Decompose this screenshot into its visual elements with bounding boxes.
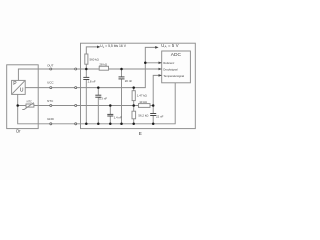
svg-text:56,2 kΩ: 56,2 kΩ <box>138 113 149 117</box>
svg-text:E: E <box>139 131 142 136</box>
svg-text:Drucksignal: Drucksignal <box>163 67 177 71</box>
svg-text:GND: GND <box>47 117 55 121</box>
svg-text:28 kΩ: 28 kΩ <box>99 63 107 67</box>
svg-text:UCC: UCC <box>47 81 54 85</box>
svg-text:3,3 nF: 3,3 nF <box>99 97 107 101</box>
svg-text:22 nF: 22 nF <box>156 115 164 119</box>
svg-text:20 nF: 20 nF <box>125 79 133 83</box>
svg-text:1,8 nF: 1,8 nF <box>88 79 96 83</box>
svg-text:Temperatursignal: Temperatursignal <box>163 74 184 78</box>
svg-text:OUT: OUT <box>47 64 54 68</box>
svg-text:1,4 nF: 1,4 nF <box>114 116 122 120</box>
svg-text:10 kΩ: 10 kΩ <box>139 100 147 104</box>
svg-text:ADC: ADC <box>171 52 182 58</box>
svg-text:NTC: NTC <box>47 99 54 103</box>
svg-text:560 kΩ: 560 kΩ <box>90 57 100 61</box>
svg-text:U: U <box>20 88 24 94</box>
svg-text:1,47 kΩ: 1,47 kΩ <box>137 93 148 97</box>
svg-text:UL = 5,5 bis 16 V: UL = 5,5 bis 16 V <box>100 44 126 49</box>
svg-text:NTC: NTC <box>27 100 32 104</box>
svg-text:Dr: Dr <box>16 129 21 134</box>
svg-text:UA = 5 V: UA = 5 V <box>161 43 178 49</box>
svg-text:Referenz: Referenz <box>163 61 175 65</box>
